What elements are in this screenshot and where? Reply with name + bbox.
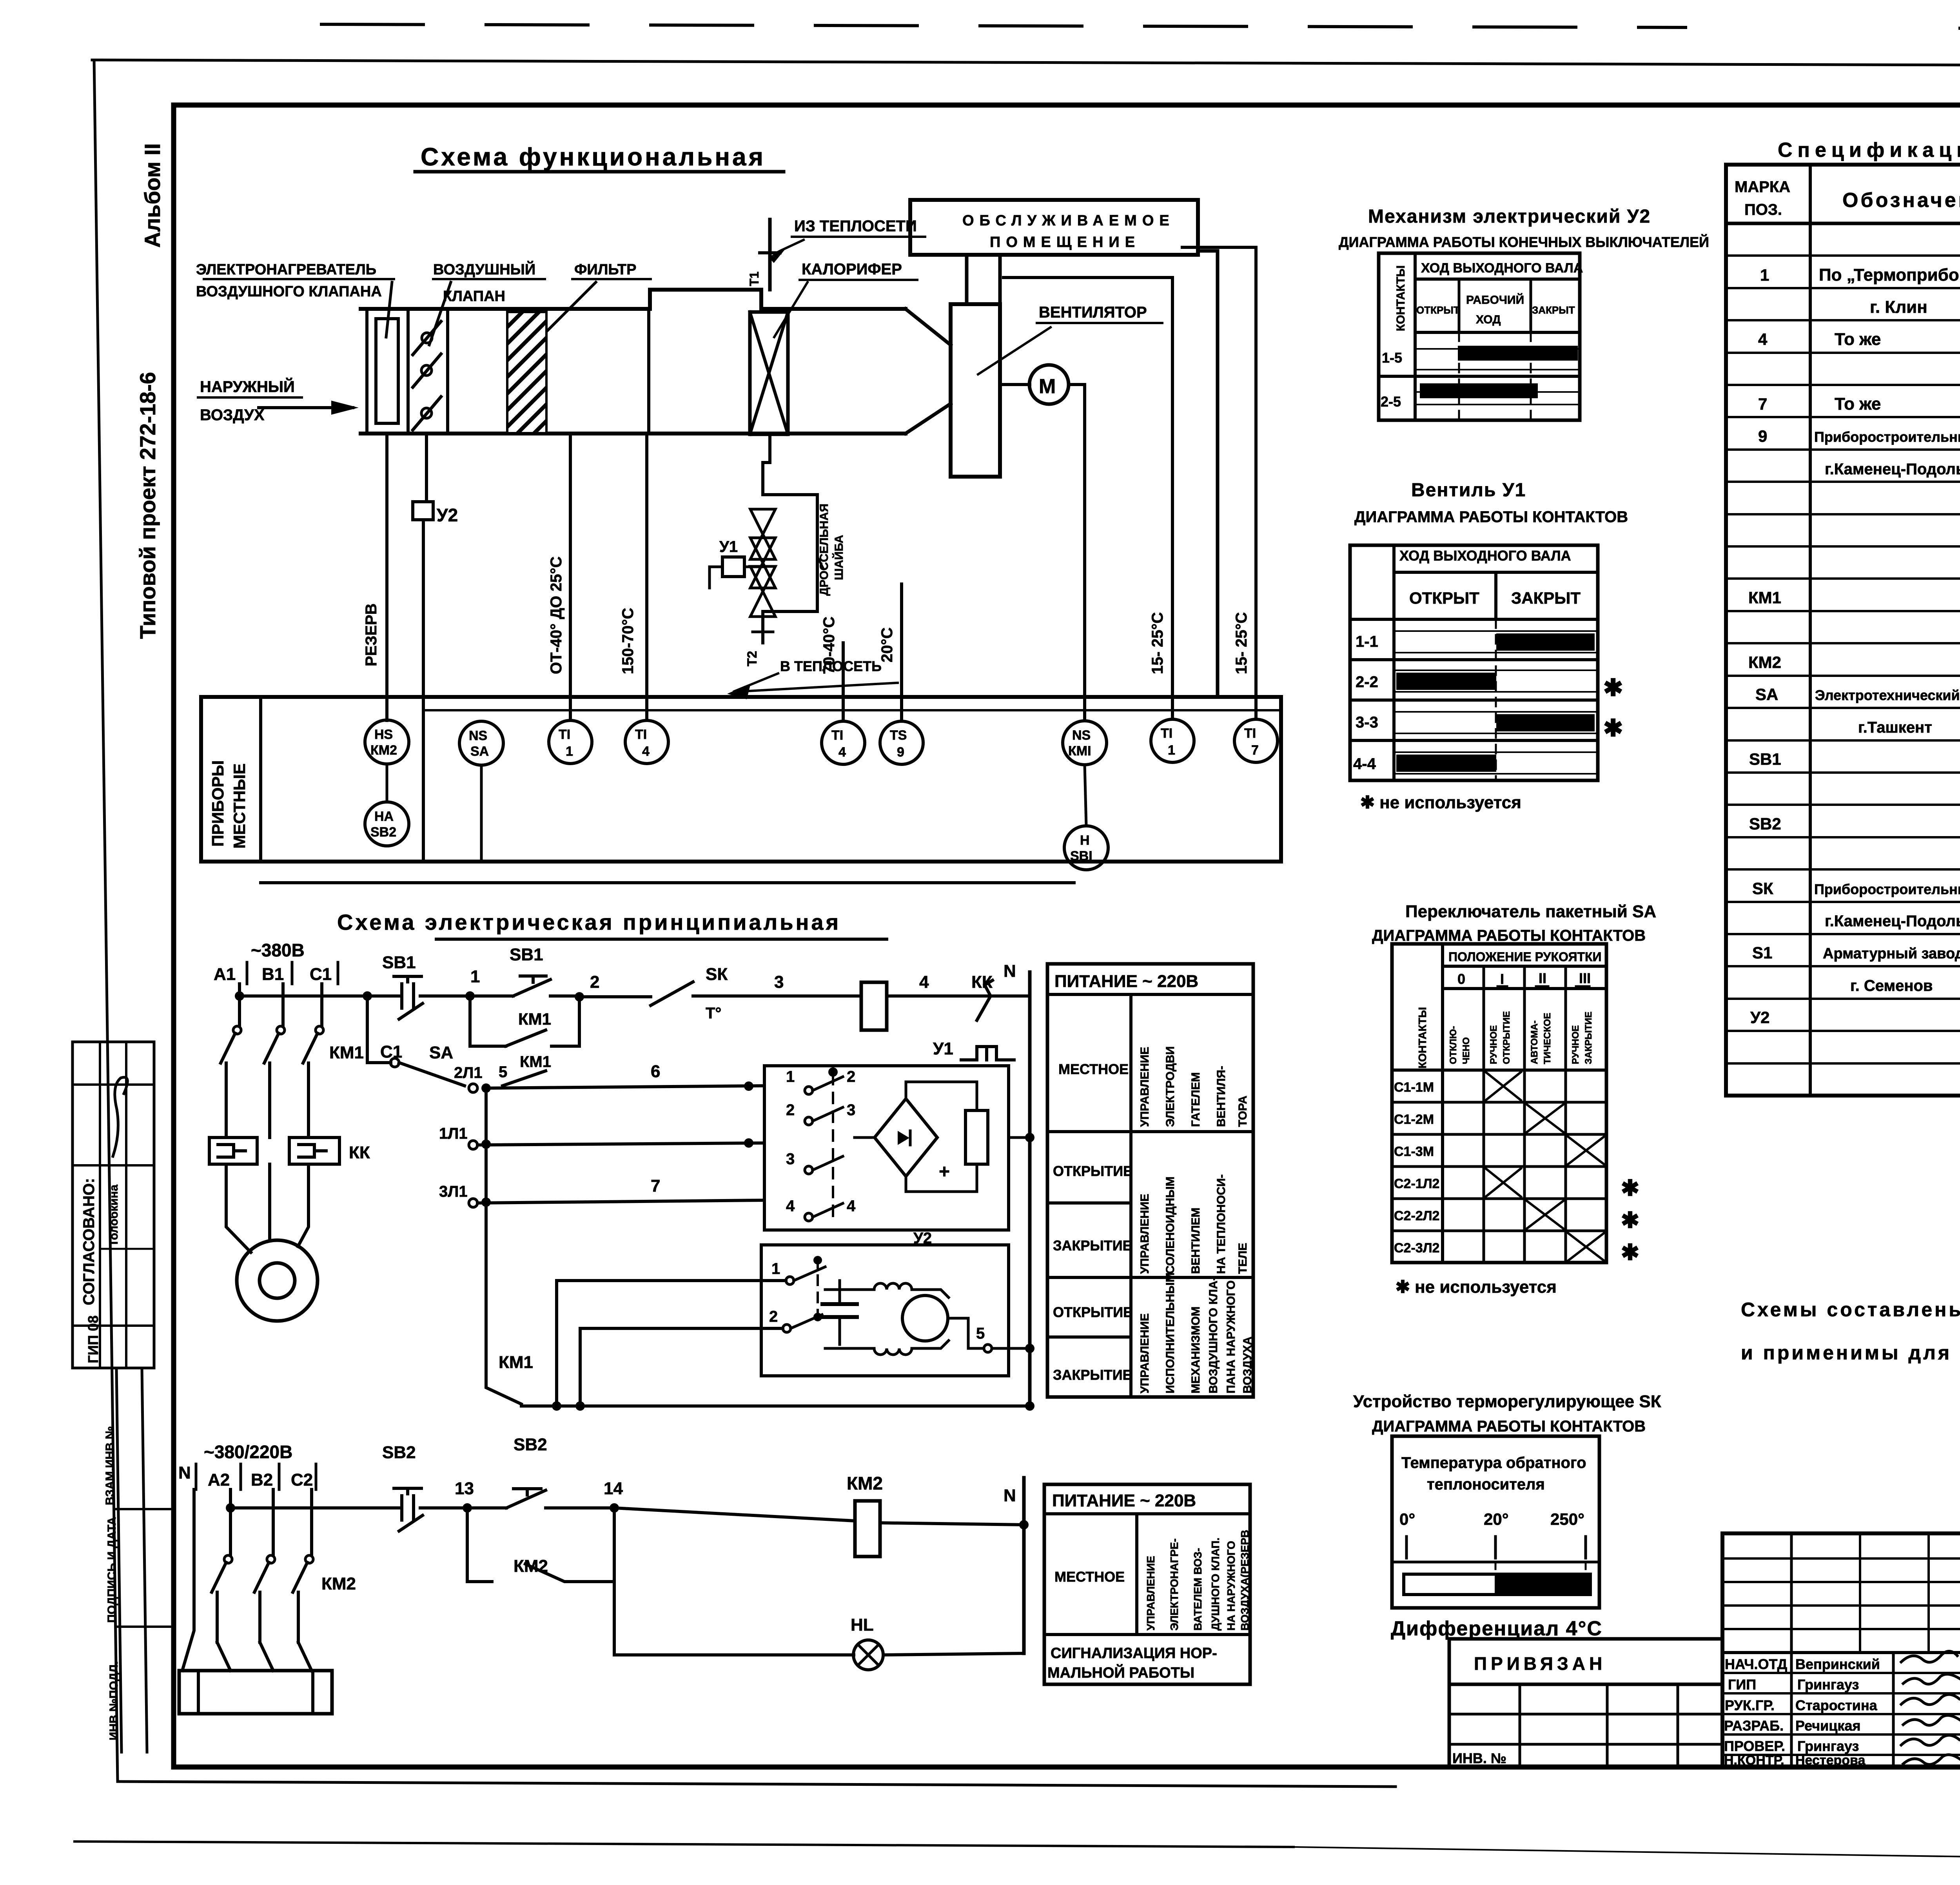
wire to SK <box>579 995 651 998</box>
louvre actuator rod <box>425 434 428 502</box>
svg-text:КМ2: КМ2 <box>370 743 397 758</box>
svg-text:Схема функциональная: Схема функциональная <box>421 143 766 171</box>
TI 4 circle <box>625 720 668 764</box>
revision grid <box>1722 1533 1960 1767</box>
svg-text:S1: S1 <box>1752 943 1772 962</box>
X mark row6 <box>1568 1233 1604 1261</box>
svg-text:С1: С1 <box>380 1042 402 1061</box>
svg-text:6: 6 <box>651 1062 660 1081</box>
svg-text:SК: SК <box>1752 879 1773 898</box>
svg-text:Обозначение: Обозначение <box>1842 189 1960 212</box>
svg-text:РЕЗЕРВ: РЕЗЕРВ <box>363 603 380 666</box>
svg-text:ТI: ТI <box>635 727 647 742</box>
svg-text:ПРИБОРЫ: ПРИБОРЫ <box>209 760 227 847</box>
svg-text:I: I <box>1500 971 1504 987</box>
SA contact blade <box>399 1063 465 1086</box>
svg-text:ВОЗДУШНЫЙ: ВОЗДУШНЫЙ <box>433 260 535 278</box>
svg-text:ТI: ТI <box>559 727 570 742</box>
bar 1-5 <box>1458 346 1578 361</box>
svg-text:теплоносителя: теплоносителя <box>1427 1476 1545 1493</box>
svg-text:ЗАКРЫТ: ЗАКРЫТ <box>1511 589 1581 607</box>
X mark row4 <box>1486 1168 1521 1197</box>
svg-text:Схемы составлены для одной при: Схемы составлены для одной приточной сис… <box>1741 1299 1960 1321</box>
svg-text:Толобкина: Толобкина <box>107 1185 120 1246</box>
spec table grid <box>1726 165 1960 1096</box>
motor to NS line <box>1069 385 1085 720</box>
band label partition <box>201 697 261 862</box>
svg-text:С2-1Л2: С2-1Л2 <box>1394 1176 1439 1191</box>
svg-text:2Л1: 2Л1 <box>454 1064 483 1081</box>
svg-text:ТS: ТS <box>890 728 907 743</box>
svg-text:СОЛЕНОИДНЫМ: СОЛЕНОИДНЫМ <box>1164 1176 1177 1274</box>
relay rect <box>965 1110 988 1164</box>
svg-text:А1: А1 <box>214 965 236 984</box>
svg-text:4: 4 <box>642 744 650 759</box>
lamp branch <box>614 1508 854 1655</box>
svg-text:II: II <box>1539 970 1546 986</box>
svg-text:4: 4 <box>838 745 846 760</box>
svg-text:СИГНАЛИЗАЦИЯ НОР-: СИГНАЛИЗАЦИЯ НОР- <box>1051 1645 1217 1662</box>
svg-text:1: 1 <box>566 744 573 759</box>
svg-text:SВ1: SВ1 <box>1749 750 1781 768</box>
svg-text:КМ1: КМ1 <box>1748 588 1781 607</box>
svg-text:N: N <box>178 1463 191 1482</box>
wire 6 <box>486 1086 764 1088</box>
svg-text:✱: ✱ <box>1621 1208 1639 1232</box>
svg-text:ИЗ ТЕПЛОСЕТИ: ИЗ ТЕПЛОСЕТИ <box>794 218 917 235</box>
svg-text:4-4: 4-4 <box>1353 755 1376 773</box>
NS SA circle <box>459 721 503 765</box>
title underline <box>436 938 887 941</box>
FUNCTIONAL-SCHEME <box>196 143 1281 883</box>
motor stator circle <box>237 1240 318 1321</box>
T1 tick <box>760 251 780 254</box>
svg-text:ЭЛЕКТРОДВИ: ЭЛЕКТРОДВИ <box>1164 1046 1177 1127</box>
svg-text:20°С: 20°С <box>878 628 896 662</box>
svg-text:То же: То же <box>1835 394 1881 414</box>
svg-text:У1: У1 <box>933 1039 953 1058</box>
svg-text:SВ2: SВ2 <box>1749 815 1781 833</box>
У2 switch diagram table <box>1379 253 1583 420</box>
branch to contact 2 <box>580 1328 783 1406</box>
wiring cap to windings <box>825 1288 874 1291</box>
svg-text:15- 25°С: 15- 25°С <box>1233 612 1250 674</box>
SB1 start button NO <box>470 976 579 996</box>
svg-text:РУК.ГР.: РУК.ГР. <box>1725 1697 1775 1713</box>
svg-text:ГИП 08: ГИП 08 <box>85 1315 101 1363</box>
svg-text:У2: У2 <box>437 505 458 525</box>
bar 2-5 <box>1420 383 1538 398</box>
leader from label to pipe <box>774 240 804 254</box>
svg-text:Приборостроительный завод,: Приборостроительный завод, <box>1814 429 1960 445</box>
svg-text:Грингауз: Грингауз <box>1797 1738 1859 1754</box>
node 14 <box>610 1503 619 1513</box>
persons rows <box>1722 1673 1960 1755</box>
DIAGRAM-TABLES <box>1339 206 1960 1640</box>
svg-text:ХОД ВЫХОДНОГО ВАЛА: ХОД ВЫХОДНОГО ВАЛА <box>1399 548 1571 564</box>
svg-text:ШАЙБА: ШАЙБА <box>832 535 846 580</box>
svg-text:г. Семенов: г. Семенов <box>1850 977 1933 994</box>
junction dot wire mid <box>744 1138 753 1148</box>
wire 4 <box>887 994 967 998</box>
scan artifact line bottom <box>74 1841 1294 1847</box>
MODE-TABLE-2 <box>1044 1484 1251 1684</box>
T2 tick <box>753 631 773 633</box>
junction dot wire6 <box>744 1081 753 1091</box>
scan artifact top dashes <box>321 24 1686 27</box>
svg-text:ГИП: ГИП <box>1728 1676 1756 1693</box>
svg-text:Переключатель пакетный SА: Переключатель пакетный SА <box>1405 902 1656 921</box>
svg-text:ОТКРЫТИЕ: ОТКРЫТИЕ <box>1053 1304 1132 1320</box>
svg-text:4: 4 <box>786 1197 795 1215</box>
filter hatched block <box>507 312 546 433</box>
mechanical link dashed <box>832 1074 834 1219</box>
svg-text:М: М <box>1039 375 1056 398</box>
svg-text:1: 1 <box>786 1068 795 1085</box>
svg-text:НА: НА <box>374 809 394 824</box>
svg-text:Спецификация элементов систе: Спецификация элементов систем П1, П2 <box>1778 139 1960 161</box>
KM1 main contact pole A <box>233 1026 241 1034</box>
svg-text:МАРКА: МАРКА <box>1735 178 1790 196</box>
svg-text:3: 3 <box>786 1150 795 1168</box>
room right outlet line <box>1198 251 1218 697</box>
wire to У2 motor box <box>521 1404 1030 1408</box>
svg-text:SА: SА <box>429 1043 453 1062</box>
svg-text:Т2: Т2 <box>745 651 760 666</box>
TITLE-BLOCK <box>1449 1533 1960 1807</box>
svg-text:КМ2: КМ2 <box>514 1557 548 1576</box>
duct top line <box>361 307 650 311</box>
svg-text:7: 7 <box>1758 395 1767 413</box>
svg-text:III: III <box>1579 970 1591 986</box>
svg-text:ТЕЛЕ: ТЕЛЕ <box>1236 1243 1249 1274</box>
svg-text:ФИЛЬТР: ФИЛЬТР <box>574 261 636 278</box>
diode inside bridge <box>898 1131 909 1145</box>
louvre blade 2 <box>413 354 441 387</box>
svg-text:ВОЗДУШНОГО КЛА-: ВОЗДУШНОГО КЛА- <box>1207 1277 1220 1393</box>
fan casing <box>951 304 1000 477</box>
КМ1 bottom contact <box>486 1380 521 1404</box>
svg-text:Электротехнический завод: Электротехнический завод <box>1815 687 1960 703</box>
svg-text:ОТКРЫТ: ОТКРЫТ <box>1416 304 1460 316</box>
svg-text:ПИТАНИЕ ~ 220В: ПИТАНИЕ ~ 220В <box>1052 1491 1196 1510</box>
svg-text:Н: Н <box>1080 833 1090 848</box>
wire to KM2 coil <box>614 1508 855 1521</box>
svg-text:ХОД: ХОД <box>1476 313 1501 326</box>
room box обслуживаемое помещение <box>910 200 1198 255</box>
svg-text:1: 1 <box>470 967 480 986</box>
svg-text:✱ не используется: ✱ не используется <box>1396 1277 1557 1297</box>
svg-text:РАЗРАБ.: РАЗРАБ. <box>1724 1718 1784 1734</box>
KM2 pole A <box>224 1555 232 1563</box>
svg-text:0: 0 <box>1457 971 1465 987</box>
band inner top line <box>423 709 1281 711</box>
svg-text:ЗАКРЫТИЕ: ЗАКРЫТИЕ <box>1583 1012 1594 1064</box>
svg-text:ДИАГРАММА РАБОТЫ КОНТАКТОВ: ДИАГРАММА РАБОТЫ КОНТАКТОВ <box>1372 927 1646 944</box>
node 2 <box>575 992 584 1001</box>
svg-text:5: 5 <box>499 1063 507 1081</box>
svg-text:ЗАКРЫТИЕ: ЗАКРЫТИЕ <box>1053 1237 1132 1254</box>
svg-text:ВЕНТИЛЕМ: ВЕНТИЛЕМ <box>1189 1208 1202 1274</box>
svg-text:С2-2Л2: С2-2Л2 <box>1394 1208 1439 1223</box>
approval stamp table <box>73 1042 154 1368</box>
solenoid У1 box <box>722 557 744 577</box>
svg-text:4: 4 <box>847 1197 856 1215</box>
instruments band outer box <box>201 697 1281 862</box>
HL lamp <box>853 1640 883 1670</box>
таблица питание 220 <box>1047 964 1253 1397</box>
leader to filter <box>529 282 596 349</box>
svg-text:А2: А2 <box>208 1470 230 1489</box>
svg-text:МЕХАНИЗМОМ: МЕХАНИЗМОМ <box>1189 1306 1202 1393</box>
X mark row2 <box>1526 1104 1564 1132</box>
return branch line <box>1182 247 1256 718</box>
signatures column squiggles <box>1901 1651 1957 1662</box>
привязан lower rows <box>1448 1684 1451 1767</box>
У2 motor box <box>761 1245 1009 1376</box>
junction dot A1 <box>235 991 244 1001</box>
svg-text:7: 7 <box>1251 743 1259 758</box>
leader to heater <box>386 282 392 337</box>
KM1 main contact pole C <box>316 1026 323 1034</box>
phase B1 wire <box>281 984 285 1026</box>
svg-text:ДУШНОГО КЛАП.: ДУШНОГО КЛАП. <box>1209 1538 1221 1631</box>
leader to fan <box>978 327 1051 374</box>
section divider line <box>647 309 650 434</box>
svg-text:МЕСТНЫЕ: МЕСТНЫЕ <box>230 764 249 849</box>
svg-text:Дифференциал 4°С: Дифференциал 4°С <box>1391 1617 1602 1640</box>
phase B2 wire <box>272 1489 275 1555</box>
SPEC-TABLE <box>1726 139 1960 1096</box>
link to HA SB2 <box>386 764 388 802</box>
svg-text:13: 13 <box>455 1479 474 1498</box>
svg-text:3: 3 <box>774 972 784 992</box>
arrow в теплосеть <box>733 673 898 692</box>
svg-text:ОТКРЫТИЕ: ОТКРЫТИЕ <box>1053 1163 1132 1179</box>
TS 9 circle <box>880 721 923 764</box>
svg-text:Старостина: Старостина <box>1795 1697 1878 1713</box>
TI 1b circle <box>1151 719 1194 762</box>
KM1 holding contact branch <box>470 996 506 1046</box>
heater housing section lines <box>365 309 368 434</box>
bar 2-2 <box>1396 673 1496 690</box>
lower winding <box>874 1348 912 1355</box>
svg-text:SК: SК <box>706 965 728 984</box>
svg-text:Арматурный завод: Арматурный завод <box>1823 945 1960 962</box>
svg-text:МЕСТНОЕ: МЕСТНОЕ <box>1054 1569 1125 1585</box>
svg-text:ДИАГРАММА РАБОТЫ КОНТАКТОВ: ДИАГРАММА РАБОТЫ КОНТАКТОВ <box>1354 508 1628 526</box>
TS9 drop line <box>900 584 903 720</box>
svg-text:14: 14 <box>604 1479 623 1498</box>
svg-text:2-5: 2-5 <box>1381 394 1401 410</box>
svg-text:ПОДПИСЬ И ДАТА: ПОДПИСЬ И ДАТА <box>105 1517 118 1623</box>
svg-text:ТИЧЕСКОЕ: ТИЧЕСКОЕ <box>1542 1013 1553 1064</box>
svg-text:УПРАВЛЕНИЕ: УПРАВЛЕНИЕ <box>1138 1194 1151 1274</box>
fan discharge duct right <box>998 255 1002 304</box>
svg-text:ДИАГРАММА РАБОТЫ КОНЕЧНЫХ ВЫКЛ: ДИАГРАММА РАБОТЫ КОНЕЧНЫХ ВЫКЛЮЧАТЕЛЕЙ <box>1339 234 1709 250</box>
svg-text:ГАТЕЛЕМ: ГАТЕЛЕМ <box>1189 1072 1202 1127</box>
svg-text:ЗАКРЫТИЕ: ЗАКРЫТИЕ <box>1053 1367 1132 1383</box>
bypass loop дроссельная шайба <box>763 495 817 611</box>
svg-text:Типовой проект 272-18-6: Типовой проект 272-18-6 <box>135 372 160 639</box>
svg-text:ИСПОЛНИТЕЛЬНЫМ: ИСПОЛНИТЕЛЬНЫМ <box>1164 1272 1177 1393</box>
svg-text:9: 9 <box>1758 427 1767 445</box>
TI 1 circle <box>549 720 592 764</box>
SA switch diagram table <box>1392 944 1639 1265</box>
svg-text:КМ1: КМ1 <box>329 1043 364 1062</box>
svg-text:1Л1: 1Л1 <box>439 1125 468 1142</box>
svg-text:Температура обратного: Температура обратного <box>1401 1454 1586 1471</box>
svg-text:ЭЛЕКТРОНАГРЕВАТЕЛЬ: ЭЛЕКТРОНАГРЕВАТЕЛЬ <box>196 261 376 278</box>
svg-text:ИНВ. №: ИНВ. № <box>1452 1750 1506 1766</box>
svg-text:+: + <box>939 1161 950 1182</box>
wire node5 to N <box>992 1347 1030 1350</box>
phase A1 wire <box>238 984 241 1026</box>
svg-text:SА: SА <box>470 744 489 759</box>
svg-text:5: 5 <box>976 1325 985 1342</box>
heater bar <box>179 1671 332 1714</box>
svg-text:ХОД ВЫХОДНОГО ВАЛА: ХОД ВЫХОДНОГО ВАЛА <box>1421 261 1583 276</box>
svg-text:2: 2 <box>769 1308 778 1325</box>
svg-text:✱: ✱ <box>1621 1240 1639 1265</box>
svg-text:В2: В2 <box>251 1470 273 1489</box>
motor M circle <box>1029 365 1069 404</box>
svg-text:ВОЗДУХА(РЕЗЕРВ: ВОЗДУХА(РЕЗЕРВ <box>1239 1530 1251 1631</box>
HS KM2 circle <box>365 720 409 764</box>
svg-text:Речицкая: Речицкая <box>1795 1718 1860 1734</box>
solenoid link <box>744 566 763 568</box>
svg-text:ПОЗ.: ПОЗ. <box>1744 201 1782 218</box>
inlet arrow <box>259 406 353 409</box>
svg-text:ЗАКРЫТ: ЗАКРЫТ <box>1532 304 1575 316</box>
svg-text:4: 4 <box>1758 330 1768 348</box>
svg-text:✱: ✱ <box>1603 675 1623 701</box>
phase label separators <box>246 962 249 984</box>
phase C1 wire <box>320 984 323 1026</box>
svg-text:НА ТЕПЛОНОСИ-: НА ТЕПЛОНОСИ- <box>1215 1174 1228 1274</box>
svg-text:КМ2: КМ2 <box>1748 653 1781 671</box>
raised roof over heater section <box>650 290 761 309</box>
junction after 2Л1 <box>481 1083 491 1093</box>
svg-text:ОТКРЫТ: ОТКРЫТ <box>1409 589 1479 607</box>
svg-text:1: 1 <box>1168 743 1175 758</box>
TI4 drop line <box>645 434 648 720</box>
svg-text:В ТЕПЛОСЕТЬ: В ТЕПЛОСЕТЬ <box>780 658 882 674</box>
калорифер X-box <box>750 312 788 434</box>
svg-text:SВ1: SВ1 <box>510 945 543 964</box>
У1 solenoid symbol <box>961 1047 1014 1060</box>
electric heater E rect <box>376 319 398 423</box>
motor link line <box>1000 383 1030 386</box>
svg-text:ВЕНТИЛЯТОР: ВЕНТИЛЯТОР <box>1039 304 1147 321</box>
SB2 start button NO <box>467 1489 614 1508</box>
KK NC contact <box>967 980 1026 1020</box>
svg-text:КМ1: КМ1 <box>518 1010 551 1028</box>
svg-text:Механизм электрический У2: Механизм электрический У2 <box>1368 206 1651 227</box>
phase C2 wire <box>310 1489 313 1555</box>
svg-text:УПРАВЛЕНИЕ: УПРАВЛЕНИЕ <box>1145 1556 1157 1631</box>
wire coil to N <box>880 1523 1024 1525</box>
louvre section right line <box>446 309 449 434</box>
У1 valve diagram table <box>1350 545 1623 780</box>
X mark row1 <box>1486 1072 1521 1100</box>
svg-text:3-3: 3-3 <box>1356 714 1378 731</box>
TI1 drop line <box>569 434 572 720</box>
band lower connection line <box>261 881 1074 884</box>
svg-text:ПИТАНИЕ ~ 220В: ПИТАНИЕ ~ 220В <box>1054 972 1198 991</box>
svg-text:ПРИВЯЗАН: ПРИВЯЗАН <box>1474 1653 1606 1674</box>
svg-text:КМ1: КМ1 <box>499 1353 533 1372</box>
svg-text:СОГЛАСОВАНО:: СОГЛАСОВАНО: <box>80 1178 98 1305</box>
svg-text:ОБСЛУЖИВАЕМОЕ: ОБСЛУЖИВАЕМОЕ <box>962 212 1175 229</box>
louvre blade 3 <box>413 397 441 430</box>
capacitor plates <box>822 1302 857 1306</box>
svg-text:3: 3 <box>847 1101 855 1119</box>
svg-text:ОТКЛЮ-: ОТКЛЮ- <box>1448 1026 1459 1064</box>
svg-text:150-70°С: 150-70°С <box>619 608 637 674</box>
svg-text:✱: ✱ <box>1621 1176 1639 1200</box>
SB2 stop button NC <box>394 1488 423 1531</box>
TI 7 circle <box>1234 719 1278 762</box>
upper winding <box>874 1283 912 1290</box>
KM2 holding contact branch <box>467 1508 492 1582</box>
junction dot <box>363 991 372 1001</box>
svg-text:и применимы для систем П1, П2.: и применимы для систем П1, П2. <box>1741 1342 1960 1364</box>
phase label separators <box>195 1464 198 1489</box>
svg-text:КК: КК <box>349 1143 370 1162</box>
rod below У2 to panel <box>422 520 425 861</box>
node 1 <box>465 991 475 1001</box>
svg-text:г. Клин: г. Клин <box>1870 298 1927 317</box>
node С1 <box>390 1058 399 1067</box>
svg-text:НА НАРУЖНОГО: НА НАРУЖНОГО <box>1225 1541 1237 1631</box>
SA tap branch <box>367 996 391 1063</box>
SA vertical feeder <box>485 1088 488 1380</box>
svg-text:SВ2: SВ2 <box>382 1443 416 1462</box>
bar 1-1 <box>1496 633 1595 651</box>
svg-text:ВОЗДУХА: ВОЗДУХА <box>1241 1337 1254 1393</box>
КМ1 bypass contact <box>503 1071 546 1086</box>
svg-text:ВАТЕЛЕМ ВОЗ-: ВАТЕЛЕМ ВОЗ- <box>1192 1548 1204 1631</box>
svg-text:ДИАГРАММА РАБОТЫ КОНТАКТОВ: ДИАГРАММА РАБОТЫ КОНТАКТОВ <box>1372 1418 1646 1435</box>
svg-text:Устройство терморегулирующее S: Устройство терморегулирующее SК <box>1353 1392 1661 1411</box>
svg-text:ВЗАМ.ИНВ.№: ВЗАМ.ИНВ.№ <box>103 1426 116 1505</box>
duct bottom line <box>361 432 906 435</box>
lamp to N <box>883 1653 1024 1655</box>
svg-text:КОНТАКТЫ: КОНТАКТЫ <box>1416 1007 1428 1069</box>
reserve drop line <box>385 434 388 720</box>
wire 7 <box>477 1200 764 1203</box>
bar 4-4 <box>1396 755 1496 772</box>
svg-text:2: 2 <box>786 1101 795 1119</box>
svg-text:SВ1: SВ1 <box>382 953 416 972</box>
svg-text:ЭЛЕКТРОНАГРЕ-: ЭЛЕКТРОНАГРЕ- <box>1168 1538 1180 1631</box>
svg-text:У2: У2 <box>1750 1008 1770 1027</box>
TI 4b circle <box>822 721 865 764</box>
main title block outer <box>1722 1533 1960 1767</box>
svg-text:С1-3М: С1-3М <box>1394 1144 1434 1159</box>
svg-text:Т1: Т1 <box>747 272 761 286</box>
N line vertical <box>1028 972 1032 1406</box>
H SB1 circle <box>1064 826 1108 870</box>
svg-text:SВ2: SВ2 <box>514 1435 547 1454</box>
svg-text:С1-2М: С1-2М <box>1394 1112 1434 1127</box>
mechanical link dashed lower <box>817 1258 819 1323</box>
sheet outer bottom edge line <box>118 1782 1396 1787</box>
svg-text:✱: ✱ <box>1603 715 1623 741</box>
svg-text:ТI: ТI <box>1244 726 1256 741</box>
heat pipe T1 vertical <box>768 220 772 290</box>
